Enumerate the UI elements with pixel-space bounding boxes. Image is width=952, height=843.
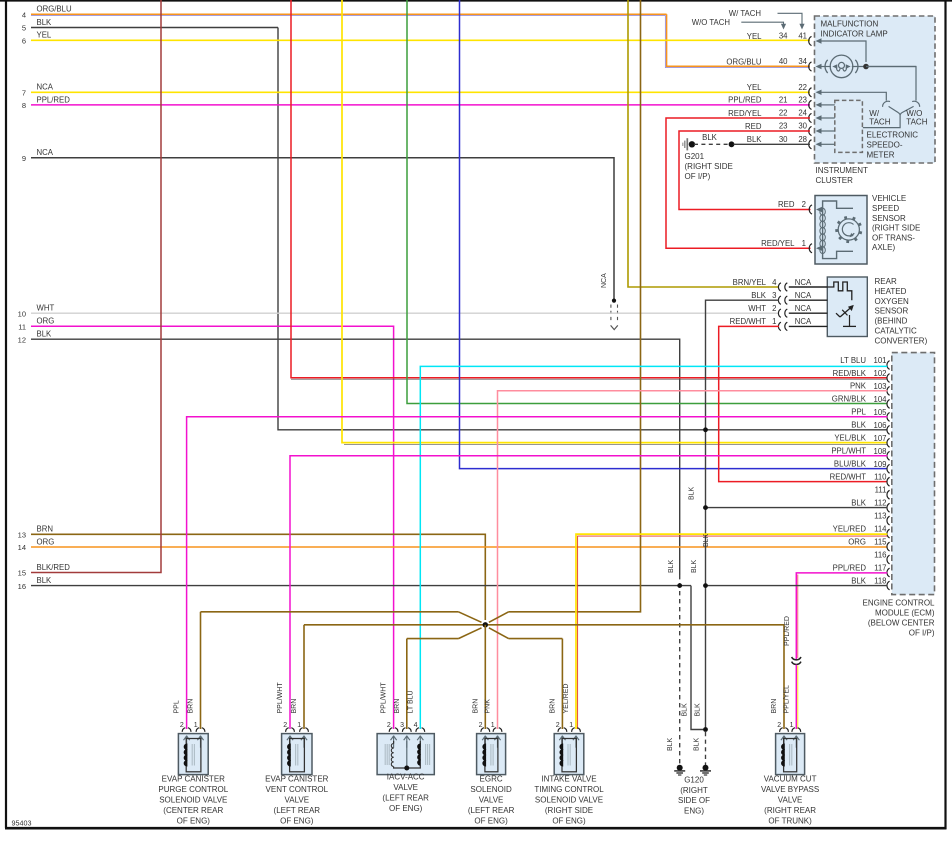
svg-text:(LEFT REAR: (LEFT REAR (274, 806, 321, 815)
svg-text:13: 13 (18, 531, 26, 540)
valve solenoid coil (288, 739, 305, 772)
valve solenoid coil (184, 739, 201, 772)
svg-text:BRN: BRN (291, 699, 298, 714)
instrument cluster title (821, 20, 888, 39)
svg-text:SOLENOID VALVE: SOLENOID VALVE (535, 796, 603, 805)
svg-text:112: 112 (874, 499, 886, 508)
oxygen sensor pin 3 NCA wire into box (789, 299, 828, 301)
row 14 label ORG (18, 537, 55, 552)
ECM pin 106 label (851, 421, 886, 430)
svg-text:(RIGHT REAR: (RIGHT REAR (764, 806, 816, 815)
svg-text:GRN/BLK: GRN/BLK (832, 395, 867, 404)
row 12 label BLK (18, 330, 52, 345)
svg-text:1: 1 (491, 722, 495, 729)
svg-text:OF TRUNK): OF TRUNK) (768, 817, 812, 826)
svg-text:OF TRANS-: OF TRANS- (872, 233, 915, 242)
junction dot row118 x=705.5 (703, 583, 708, 588)
wire BLK ECM 112 from vertical (706, 507, 888, 509)
cluster pin 24 connector (809, 113, 812, 122)
svg-text:2: 2 (283, 722, 287, 729)
svg-text:BLK: BLK (694, 737, 701, 751)
svg-text:RED/BLK: RED/BLK (833, 369, 867, 378)
svg-text:12: 12 (18, 335, 26, 344)
wire PPL/YEL inline connector to vacuum valve pin 1 (795, 665, 797, 729)
svg-text:113: 113 (874, 512, 886, 521)
ECM pin 107 connector (887, 438, 890, 447)
instrument cluster box (815, 16, 936, 163)
ECM pin 105 connector (887, 413, 890, 422)
svg-text:(RIGHT SIDE: (RIGHT SIDE (545, 806, 593, 815)
valve pin 3 connector/label (BRN) (394, 699, 411, 732)
svg-text:OF ENG): OF ENG) (474, 817, 508, 826)
svg-text:TACH: TACH (906, 118, 927, 127)
svg-text:1: 1 (772, 317, 776, 326)
svg-text:NCA: NCA (795, 278, 812, 287)
svg-text:22: 22 (798, 83, 807, 92)
svg-text:7: 7 (22, 89, 26, 98)
svg-text:ORG: ORG (37, 317, 55, 326)
svg-text:BLU/BLK: BLU/BLK (834, 460, 867, 469)
svg-text:BLK: BLK (703, 533, 710, 547)
svg-text:BLK: BLK (702, 133, 718, 142)
electronic speedometer dashed box (835, 100, 863, 152)
wire BLK G201 to cluster pin 28 (734, 143, 811, 145)
svg-text:PPL/WHT: PPL/WHT (381, 682, 388, 714)
junction dot x=705.5 y=729.5 (703, 727, 708, 732)
cluster pin 23 labels (PPL/RED) (728, 96, 807, 105)
svg-text:SOLENOID VALVE: SOLENOID VALVE (159, 796, 227, 805)
ECM pin 111 connector (887, 490, 890, 499)
ECM pin 109 label (834, 460, 887, 469)
svg-text:8: 8 (22, 101, 26, 110)
svg-text:1: 1 (194, 722, 198, 729)
svg-text:3: 3 (400, 722, 404, 729)
svg-text:40: 40 (779, 57, 788, 66)
svg-text:OF ENG): OF ENG) (389, 804, 423, 813)
W/ TACH header pointer (729, 9, 805, 30)
valve pin 1 connector/label (PNK) (485, 699, 502, 732)
svg-text:PNK: PNK (850, 382, 867, 391)
cluster pin 28 connector (809, 140, 812, 149)
svg-text:PPL/WHT: PPL/WHT (277, 682, 284, 714)
wire 16 BLK to ground junctions (31, 585, 691, 587)
svg-text:21: 21 (779, 96, 788, 105)
wire BRN to intake valve pin 2 (561, 639, 563, 729)
ECM pin 102 connector (887, 374, 890, 383)
svg-text:G201: G201 (685, 152, 705, 161)
wire BLK dashed below dot to G120 right (705, 732, 707, 765)
ECM pin 113 connector (887, 516, 890, 525)
vertical wire BRN x=640.5 down to solenoid junction (509, 0, 641, 612)
svg-text:118: 118 (874, 577, 886, 586)
ECM pin 108 connector (887, 451, 890, 460)
svg-text:114: 114 (874, 525, 887, 534)
svg-text:NCA: NCA (795, 291, 812, 300)
svg-text:VALVE: VALVE (393, 783, 418, 792)
speed sensor pin 1 internal arrow (816, 246, 822, 251)
svg-text:INSTRUMENT: INSTRUMENT (816, 166, 869, 175)
speed sensor pin 2 connector (809, 205, 812, 214)
svg-text:2: 2 (802, 200, 806, 209)
svg-text:EVAP CANISTER: EVAP CANISTER (265, 775, 329, 784)
switch common V (863, 106, 914, 127)
svg-text:PPL/RED: PPL/RED (37, 95, 71, 104)
wire PPL ECM 105 to EVAP purge pin 2 (187, 417, 888, 729)
svg-text:RED: RED (745, 122, 762, 131)
cluster pin 28 internal wire (816, 142, 835, 147)
svg-text:95403: 95403 (12, 819, 32, 828)
svg-text:SENSOR: SENSOR (872, 214, 906, 223)
vertical wire BLU/BLK x=459.5 to ECM 109 (460, 0, 888, 469)
svg-text:YEL: YEL (747, 32, 762, 41)
svg-text:VENT CONTROL: VENT CONTROL (266, 785, 329, 794)
valve caption INTAKE VALVE (534, 775, 604, 826)
svg-text:24: 24 (798, 109, 807, 118)
cluster pin 30 internal wire (816, 128, 835, 133)
valve pin 1 internal arrow (573, 736, 576, 740)
svg-text:1: 1 (569, 722, 573, 729)
oxygen sensor pin 4 NCA wire into box (789, 286, 828, 288)
svg-text:111: 111 (875, 486, 887, 495)
ECM pin 109 connector (887, 464, 890, 473)
vertical wire BRN/YEL x=628 to oxygen sensor pin 4 (628, 0, 779, 287)
valve pin 2 internal arrow (559, 736, 562, 740)
valve box IACV-ACC (377, 734, 434, 775)
valve caption EVAP CANISTER (158, 775, 228, 826)
ECM pin 118 label (851, 576, 886, 585)
svg-text:(LEFT REAR: (LEFT REAR (468, 806, 515, 815)
ECM pin 113 label (874, 512, 886, 521)
svg-text:ORG/BLU: ORG/BLU (726, 57, 761, 66)
cluster pin 22 connector (809, 88, 812, 97)
svg-text:BLK: BLK (851, 499, 867, 508)
svg-text:9: 9 (22, 154, 26, 163)
row 15 label BLK/RED (18, 563, 71, 578)
cluster pin 41 internal wire to lamp junction (816, 38, 867, 62)
svg-text:PPL/RED: PPL/RED (728, 96, 762, 105)
wire BLK row16 corner down x=691 (691, 586, 706, 730)
valve pin 2 connector/label (PPL/WHT) (381, 682, 398, 732)
svg-text:RED: RED (778, 200, 795, 209)
svg-text:115: 115 (874, 538, 887, 547)
inline connector on vacuum valve wire (792, 657, 801, 664)
wire 4 ORG/BLU vertical + to cluster pin 34/40 (665, 14, 810, 67)
svg-text:CLUSTER: CLUSTER (816, 176, 854, 185)
svg-text:NCA: NCA (795, 317, 812, 326)
speed sensor pin 1 connector (809, 244, 812, 253)
ECM pin 108 label (831, 447, 886, 456)
vertical wire YEL x=342 to ECM 107 YEL/BLK (342, 0, 887, 443)
lamp output junction (863, 64, 869, 70)
svg-text:107: 107 (873, 434, 886, 443)
svg-text:104: 104 (873, 395, 887, 404)
valve pin 1 connector/label (YEL/RED) (563, 684, 580, 732)
valve pin 1 connector/label (BRN) (291, 699, 308, 732)
valve solenoid coil (782, 739, 797, 772)
svg-text:VEHICLE: VEHICLE (872, 194, 906, 203)
oxygen sensor element symbol (836, 305, 856, 327)
ECM caption (862, 599, 935, 638)
valve pin 2 connector/label (PPL) (174, 700, 191, 732)
svg-text:11: 11 (18, 323, 26, 332)
ECM pin 102 label (833, 369, 887, 378)
svg-text:W/O TACH: W/O TACH (692, 18, 730, 27)
ECM pin 105 label (851, 408, 887, 417)
oxygen sensor pin 1 labels (RED/WHT) (730, 317, 812, 326)
svg-text:BRN: BRN (394, 699, 401, 714)
valve pin 1 connector/label (PPL/YEL) (783, 685, 800, 732)
wire 11 ORG magenta down to IACV pin 2 (31, 326, 394, 729)
speed sensor coil (820, 208, 825, 253)
wire PNK ECM 103 to EGRC pin 1 (498, 391, 888, 729)
cluster pin 41 labels (YEL) (747, 32, 807, 41)
ECM pin 103 label (850, 382, 887, 391)
wire BRN to IACV pin 3 (406, 639, 408, 729)
svg-text:PURGE CONTROL: PURGE CONTROL (158, 785, 228, 794)
valve pin 2 connector/label (BRN) (472, 699, 489, 732)
cluster pin 22 labels (YEL) (747, 83, 807, 92)
valve pin 2 internal arrow (391, 736, 394, 740)
svg-text:(RIGHT SIDE: (RIGHT SIDE (685, 162, 733, 171)
valve pin 1 internal arrow (197, 736, 200, 740)
valve pin 4 internal arrow (417, 736, 420, 740)
oxygen sensor pin 2 labels (WHT) (748, 304, 812, 313)
ECM pin 104 label (832, 395, 887, 404)
speed sensor pin 2 label RED (778, 200, 806, 209)
svg-text:BRN/YEL: BRN/YEL (733, 278, 767, 287)
valve box INTAKE VALVE (554, 734, 584, 775)
svg-text:1: 1 (790, 722, 794, 729)
svg-text:BLK: BLK (688, 486, 695, 500)
row 6 label YEL (22, 31, 52, 46)
G201 caption (685, 152, 733, 181)
cluster pin 30 labels (RED) (745, 122, 808, 131)
ground G120 left symbol (674, 765, 685, 775)
svg-text:109: 109 (873, 460, 886, 469)
wire 12 BLK down at x=680 (31, 339, 680, 575)
vertical wire RED/BLK x=291 to ECM 102 (291, 0, 887, 378)
svg-text:(LEFT REAR: (LEFT REAR (382, 794, 429, 803)
svg-text:108: 108 (873, 447, 886, 456)
ECM pin 115 connector (887, 542, 890, 551)
svg-text:BLK/RED: BLK/RED (37, 563, 71, 572)
wire BRN to EVAP vent pin 1 (303, 625, 305, 729)
valve pin 1 internal arrow (793, 736, 796, 740)
svg-text:2: 2 (180, 722, 184, 729)
svg-text:110: 110 (874, 473, 887, 482)
ECM pin 103 connector (887, 387, 890, 396)
cluster pin 23 internal wire (816, 102, 835, 107)
electronic speedometer label (867, 131, 919, 160)
valve box EGRC (477, 734, 506, 775)
svg-text:TIMING CONTROL: TIMING CONTROL (534, 785, 604, 794)
ECM pin 101 connector (887, 361, 890, 370)
svg-text:ORG: ORG (848, 537, 866, 546)
svg-text:101: 101 (873, 356, 886, 365)
svg-text:SPEED: SPEED (872, 204, 899, 213)
W/O TACH header pointer (692, 18, 786, 30)
svg-text:22: 22 (779, 109, 788, 118)
svg-text:103: 103 (873, 382, 886, 391)
svg-text:2: 2 (556, 722, 560, 729)
oxygen sensor heater element (827, 282, 852, 300)
svg-text:34: 34 (798, 57, 807, 66)
junction dot BLK106 x=705.5 (703, 427, 708, 432)
svg-text:117: 117 (874, 564, 886, 573)
svg-text:BLK: BLK (37, 576, 53, 585)
svg-text:PPL/YEL: PPL/YEL (783, 685, 790, 714)
svg-text:BLK: BLK (851, 576, 867, 585)
valve caption EGRC (468, 775, 515, 826)
cluster pin 22 internal wire to W/ TACH switch (816, 90, 887, 101)
svg-text:LT BLU: LT BLU (407, 690, 414, 713)
wire 5 BLK horizontal (31, 27, 278, 29)
svg-text:23: 23 (798, 96, 807, 105)
row 5 label BLK (22, 18, 52, 33)
svg-text:BLK: BLK (747, 135, 763, 144)
svg-text:INTAKE VALVE: INTAKE VALVE (541, 775, 596, 784)
svg-text:OF ENG): OF ENG) (177, 817, 211, 826)
ECM pin 112 connector (887, 503, 890, 512)
wire 13 BRN down to EGRC pin 2 via junction (31, 534, 485, 620)
svg-text:PPL/RED: PPL/RED (833, 563, 867, 572)
svg-text:(CENTER REAR: (CENTER REAR (163, 806, 223, 815)
cluster pin 24 internal wire (816, 115, 835, 120)
svg-text:2: 2 (479, 722, 483, 729)
valve solenoid coil (560, 739, 576, 772)
valve caption IACV-ACC (382, 773, 429, 814)
valve pin 2 connector/label (BRN) (549, 699, 566, 732)
svg-text:WHT: WHT (37, 304, 55, 313)
ECM pin 111 label (875, 486, 887, 495)
svg-text:6: 6 (22, 37, 26, 46)
ECM pin 110 connector (887, 477, 890, 486)
wire 8 PPL/RED to cluster pin 21/23 (31, 104, 810, 106)
valve box EVAP CANISTER (282, 734, 312, 775)
svg-text:RED/WHT: RED/WHT (730, 317, 767, 326)
valve pin 2 internal arrow (482, 736, 485, 740)
ECM pin 114 connector (887, 529, 890, 538)
svg-text:G120: G120 (684, 776, 704, 785)
ECM pin 115 label (848, 537, 887, 546)
row 4 label ORG/BLU (22, 5, 72, 20)
BRN junction star (201, 612, 785, 639)
svg-text:BRN: BRN (188, 699, 195, 714)
valve pin 2 internal arrow (781, 736, 784, 740)
ECM pin 110 label (830, 473, 888, 482)
svg-text:HEATED: HEATED (875, 287, 907, 296)
svg-text:LT BLU: LT BLU (840, 356, 866, 365)
ground G201 symbol (683, 138, 695, 150)
cluster pin 34 labels (ORG/BLU) (726, 57, 807, 66)
svg-text:2: 2 (387, 722, 391, 729)
rear heated oxygen sensor box (827, 277, 867, 337)
wire BRN to vacuum cut valve pin 2 (783, 625, 785, 729)
wire RED/WHT oxygen pin 1 from ECM 110 (719, 326, 888, 481)
cluster pin 30 connector (809, 126, 812, 135)
G120 caption (678, 776, 710, 816)
cluster pin 41 connector (809, 36, 812, 45)
wire RED cluster pin 30 to speed sensor pin 2 (679, 131, 811, 210)
svg-text:MODULE (ECM): MODULE (ECM) (875, 609, 935, 618)
svg-text:VALVE: VALVE (479, 796, 504, 805)
wire BLK oxygen pin 3 down x=705.5 (706, 300, 780, 729)
svg-text:102: 102 (873, 369, 886, 378)
svg-text:VALVE BYPASS: VALVE BYPASS (761, 785, 819, 794)
svg-text:NCA: NCA (601, 273, 608, 288)
wire BLK G201 dashed segment (694, 141, 734, 147)
svg-text:SIDE OF: SIDE OF (678, 796, 710, 805)
wire YEL/RED ECM 114 to intake valve pin 1 (576, 534, 887, 729)
svg-text:BRN: BRN (771, 699, 778, 714)
wire 5 BLK vertical down to ECM 106 row (278, 28, 887, 430)
ECM pin 118 connector (887, 581, 890, 590)
svg-text:BLK: BLK (751, 291, 767, 300)
wire 7 NCA yellow to cluster pin 22 (31, 91, 810, 93)
wire 10 WHT to oxygen sensor pin 2 (31, 312, 779, 314)
svg-text:AXLE): AXLE) (872, 243, 895, 252)
wire 15 BLK/RED up to top edge (31, 0, 161, 573)
wire BLK ECM 118 from ground junction (706, 585, 888, 587)
svg-text:41: 41 (798, 32, 807, 41)
valve caption EVAP CANISTER (265, 775, 329, 826)
malfunction indicator lamp symbol (825, 55, 858, 78)
valve pin 2 connector/label (BRN) (771, 699, 788, 732)
svg-text:4: 4 (22, 10, 26, 19)
svg-text:BRN: BRN (472, 699, 479, 714)
oxygen sensor pin 1 double connector (778, 322, 787, 330)
svg-text:(BELOW CENTER: (BELOW CENTER (868, 619, 935, 628)
svg-text:BLK: BLK (37, 18, 53, 27)
svg-text:BLK: BLK (694, 703, 701, 717)
svg-text:OF ENG): OF ENG) (552, 817, 586, 826)
svg-text:(BEHIND: (BEHIND (875, 317, 908, 326)
svg-text:3: 3 (772, 291, 776, 300)
ECM pin 107 label (834, 434, 886, 443)
ECM pin 106 connector (887, 426, 890, 435)
svg-text:MALFUNCTION: MALFUNCTION (821, 20, 879, 29)
svg-text:METER: METER (867, 151, 895, 160)
svg-text:YEL/RED: YEL/RED (833, 524, 867, 533)
svg-text:RED/YEL: RED/YEL (761, 239, 795, 248)
switch labels W/ TACH and W/O TACH (869, 109, 927, 127)
svg-text:106: 106 (873, 421, 886, 430)
wire BLK dashed vertical x=679.7 to G120 (679, 575, 681, 765)
svg-text:INDICATOR LAMP: INDICATOR LAMP (821, 30, 888, 39)
ECM pin 117 label (833, 563, 887, 572)
svg-text:PPL/WHT: PPL/WHT (831, 447, 866, 456)
ECM pin 101 label (840, 356, 886, 365)
ECM pin 117 connector (887, 568, 890, 577)
svg-text:NCA: NCA (37, 83, 54, 92)
svg-text:W/ TACH: W/ TACH (729, 9, 761, 18)
svg-text:EGRC: EGRC (480, 775, 503, 784)
ground G120 right symbol (700, 765, 711, 775)
junction dot row16 x=679.7 (677, 583, 682, 588)
svg-text:14: 14 (18, 543, 26, 552)
svg-text:1: 1 (802, 239, 806, 248)
oxygen sensor pin 2 NCA wire into box (789, 312, 828, 314)
cluster pin 34 internal wire through lamp (816, 64, 917, 69)
W/O TACH switch contact (912, 101, 919, 107)
svg-text:VALVE: VALVE (284, 796, 309, 805)
wire BRN to EVAP purge pin 1 (200, 612, 202, 729)
svg-text:YEL/RED: YEL/RED (563, 684, 570, 714)
oxygen sensor caption (875, 277, 928, 345)
svg-text:BLK: BLK (851, 421, 867, 430)
svg-text:RED/YEL: RED/YEL (728, 109, 762, 118)
svg-text:OF I/P): OF I/P) (685, 172, 711, 181)
